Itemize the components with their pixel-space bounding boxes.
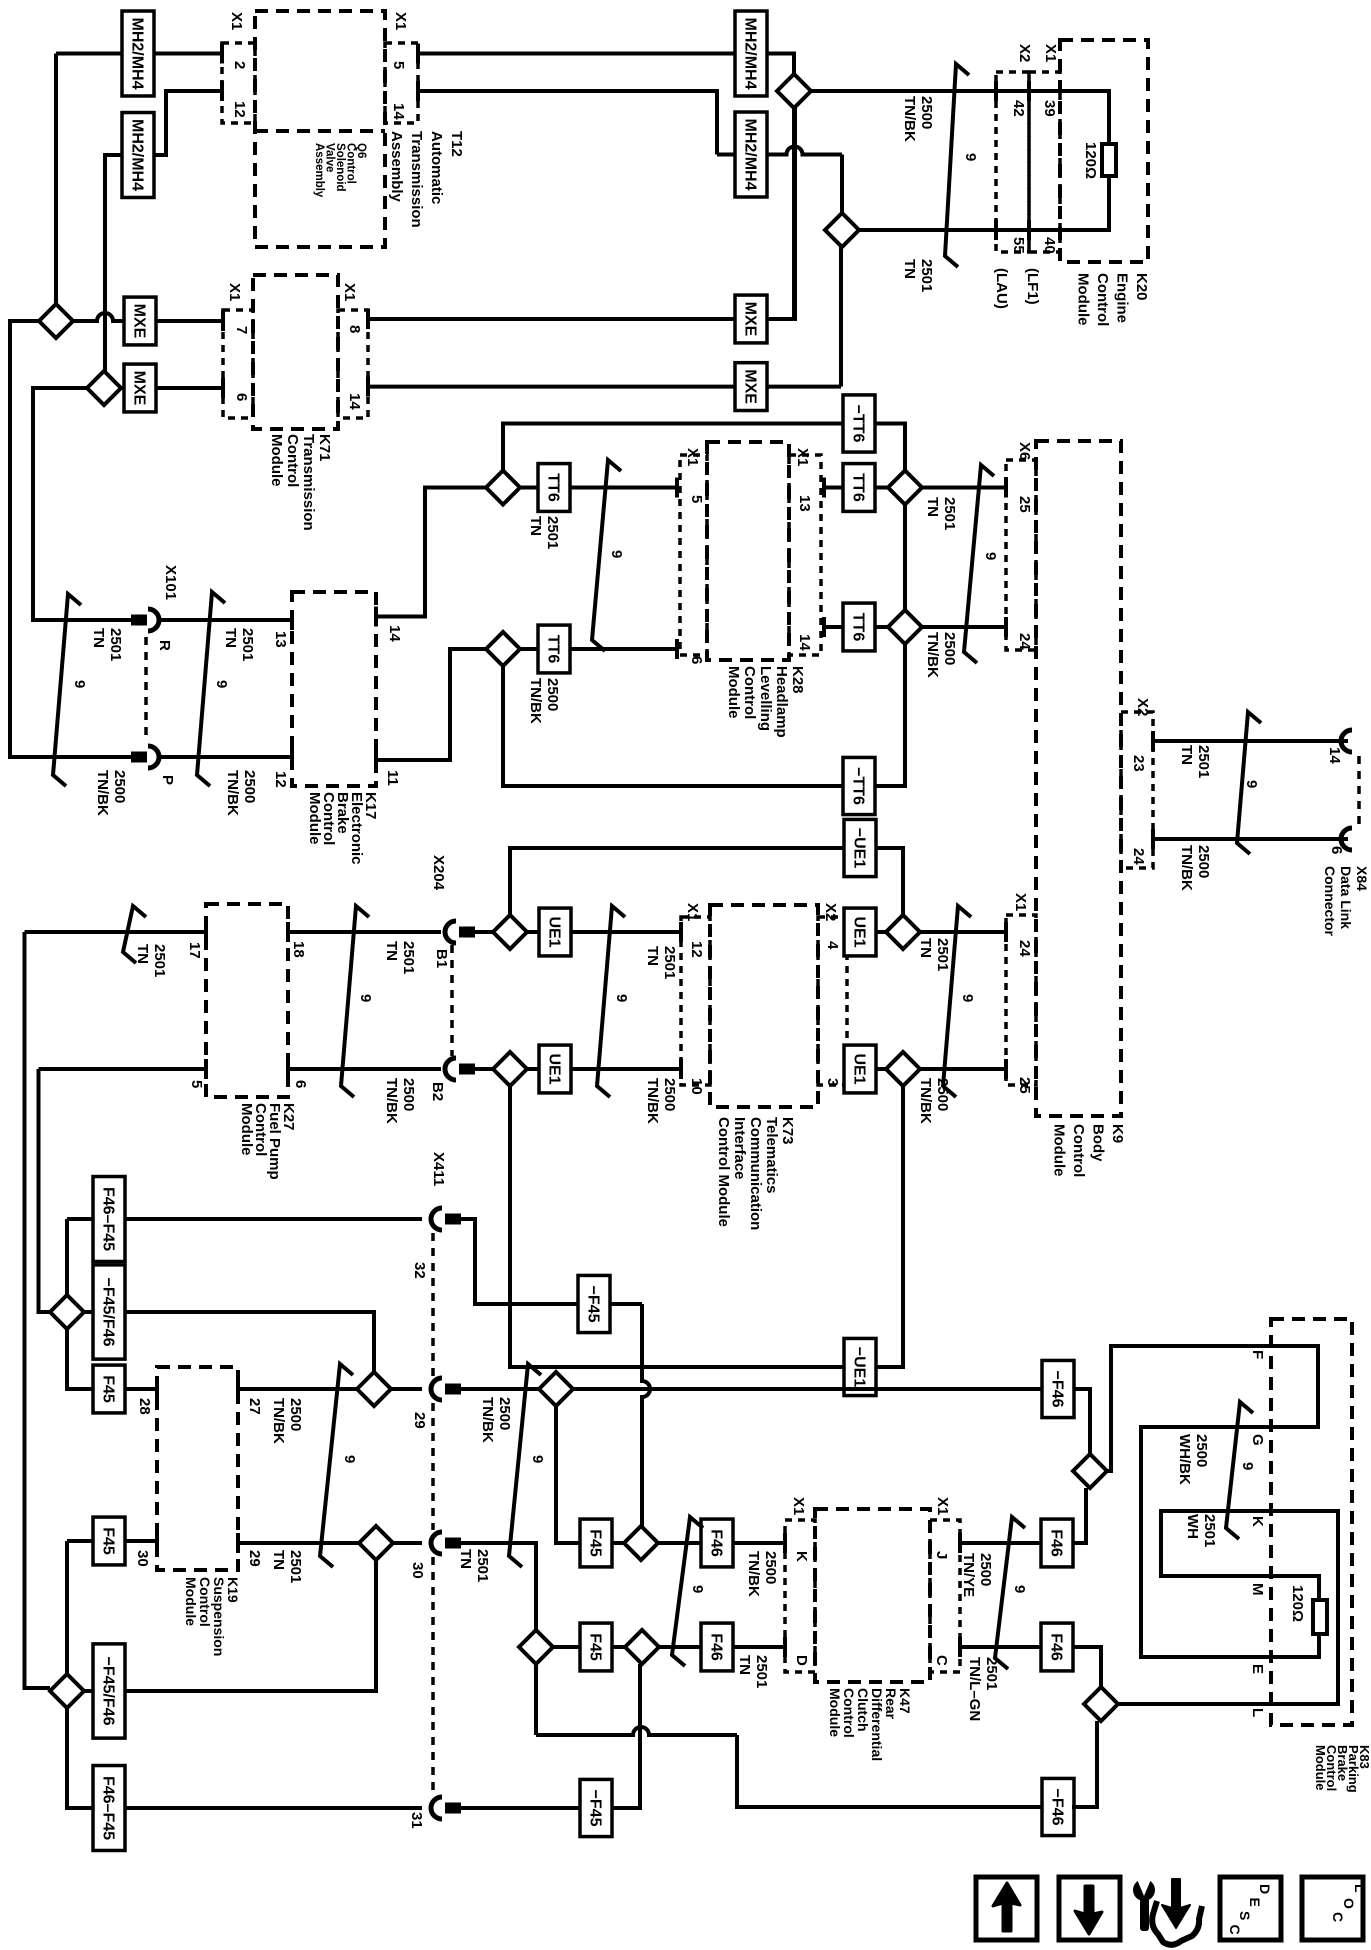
svg-text:S: S: [1237, 1911, 1253, 1920]
twisted pair marker (K20): [945, 64, 969, 267]
wire D9 top to -UE1: [510, 848, 845, 915]
tick K47 pin D: [783, 1637, 787, 1657]
svg-text:X2: X2: [822, 903, 839, 921]
svg-text:F: F: [1249, 1350, 1266, 1359]
wire down to -F46 (2): [737, 1735, 1043, 1807]
svg-text:R: R: [156, 640, 173, 651]
wire D7 to K28 pin6: [520, 647, 677, 651]
svg-text:18: 18: [290, 941, 307, 958]
svg-text:L: L: [1352, 1884, 1368, 1893]
wire X411-31 to -F45 (2): [461, 1806, 580, 1810]
twisted pair marker (K9 X6): [964, 465, 994, 663]
icon box down arrow: [1059, 1877, 1120, 1940]
svg-text:5: 5: [188, 1080, 205, 1088]
svg-text:24: 24: [1016, 633, 1033, 650]
wire F46 down to D21 top: [1072, 1647, 1101, 1687]
svg-text:−UE1: −UE1: [851, 828, 868, 869]
connector X411 body (dashed, 29-30): [431, 1403, 435, 1530]
wire label box UE1 (left 1): [539, 908, 571, 956]
tick K73 pin12: [679, 922, 683, 942]
wire X411-32 to -F45: [461, 1219, 578, 1304]
twisted pair marker (row1 left): [123, 906, 146, 963]
wire D20 to K83 F-G jumper to E and resistor: [1107, 1346, 1319, 1657]
svg-text:9: 9: [529, 1455, 546, 1463]
svg-text:F45: F45: [100, 1527, 117, 1555]
svg-text:−F45: −F45: [587, 1790, 604, 1827]
svg-text:4: 4: [824, 941, 841, 950]
svg-text:X1: X1: [341, 283, 358, 301]
svg-text:9: 9: [608, 550, 625, 558]
splice diamond D1: [777, 74, 811, 108]
svg-text:C: C: [1227, 1925, 1243, 1935]
wire F46 to K47 pin D: [732, 1645, 785, 1649]
svg-text:9: 9: [962, 153, 979, 161]
resistor 120 ohm (K83): [1313, 1600, 1327, 1634]
tick K9 X2-23: [1151, 731, 1155, 751]
svg-text:F46: F46: [1048, 1529, 1065, 1557]
svg-text:30: 30: [134, 1550, 151, 1567]
svg-text:UE1: UE1: [851, 916, 868, 947]
svg-text:D: D: [1257, 1884, 1273, 1894]
wire -F45 (2) up to D20b bottom: [612, 1664, 640, 1808]
splice diamond D9: [493, 915, 527, 949]
svg-text:55: 55: [1010, 237, 1027, 254]
svg-text:F46–F45: F46–F45: [100, 1187, 117, 1251]
splice diamond D18: [624, 1526, 658, 1560]
wire D17 to X411-30: [393, 1541, 422, 1545]
twisted pair marker (X101 left): [53, 594, 81, 786]
svg-text:(LAU): (LAU): [993, 268, 1010, 309]
wire K27 pin18 to X204 B1: [288, 930, 441, 934]
wire -UE1 to D10 top: [875, 848, 903, 915]
splice diamond D4: [87, 371, 121, 405]
tick K19 pin30: [155, 1531, 159, 1551]
tick K19 pin27: [236, 1379, 240, 1399]
wire K73 pin4 to D10: [847, 930, 886, 934]
tick K20 X2-42: [994, 81, 998, 101]
svg-text:UE1: UE1: [546, 916, 563, 947]
wire -F46 to D20 top: [1073, 1389, 1090, 1454]
svg-text:−F45: −F45: [585, 1286, 602, 1323]
wire D6 top to -TT6: [503, 424, 844, 471]
connector X411 pin 32: [431, 1208, 442, 1230]
twisted pair marker (X84): [1237, 712, 1261, 854]
wire D4 left down to X101 R: [33, 388, 131, 620]
twisted pair marker (K73 left): [597, 906, 625, 1097]
svg-text:12: 12: [272, 771, 289, 788]
tick T12 pin14: [416, 81, 420, 101]
svg-text:K: K: [793, 1551, 810, 1562]
wire label box UE1 (right 2): [844, 1045, 876, 1093]
tick K28 pin6: [675, 639, 679, 659]
wire D15 right to -F45/F46: [84, 1310, 93, 1314]
tick K47 pin C: [958, 1637, 962, 1657]
tick T12 pin12: [220, 81, 224, 101]
tick T12 pin5: [416, 44, 420, 64]
svg-text:9: 9: [959, 994, 976, 1002]
svg-text:F45: F45: [100, 1375, 117, 1403]
tick K9 X1-25: [1004, 1059, 1008, 1079]
wire D15 bottom to F45 row (K19-28): [67, 1329, 93, 1389]
module K9 Body Control Module (dashed box): [1036, 441, 1121, 1116]
connector strip K28 X1 left: [680, 455, 707, 655]
wire -F45/F46 to D13 top: [125, 1312, 374, 1372]
wire D18 to F46 (row C): [658, 1541, 702, 1545]
tick K19 pin29: [236, 1533, 240, 1553]
wire label box -F45 (top): [578, 1275, 610, 1332]
svg-text:13: 13: [796, 495, 813, 512]
wire label box MH2/MH4 (B): [122, 113, 154, 198]
wire label box F46-F45 (bottom): [93, 1766, 125, 1851]
svg-text:F46–F45: F46–F45: [100, 1776, 117, 1840]
svg-text:9: 9: [357, 994, 374, 1002]
module K19 Suspension Control Module (dashed box): [157, 1367, 238, 1570]
wire label box F46 (row C): [701, 1519, 733, 1567]
wire -TT6 to splice D5 top: [874, 424, 905, 471]
wire label box -F45 (bottom): [580, 1779, 612, 1836]
tick K73 pin4: [845, 922, 849, 942]
tick K17 pin13: [290, 610, 294, 630]
wire D19b to F45 (row D): [553, 1645, 581, 1649]
svg-text:6: 6: [292, 1080, 309, 1088]
svg-text:14: 14: [346, 393, 363, 410]
wire D8 to K9 X6-24: [922, 625, 1006, 629]
wire label box MH2/MH4 (A): [122, 11, 154, 96]
wire row A corner down to D15: [65, 1219, 69, 1295]
svg-text:120Ω: 120Ω: [1082, 142, 1099, 179]
connector X411 pin 29: [431, 1378, 442, 1400]
tick K20 X2-55: [994, 220, 998, 240]
connector X411 pin 31: [431, 1797, 442, 1819]
svg-text:−F45/F46: −F45/F46: [100, 1278, 117, 1347]
svg-text:32: 32: [411, 1262, 428, 1279]
svg-text:P: P: [159, 775, 176, 785]
connector strip K47 X1 right: [930, 1520, 960, 1672]
svg-text:X1: X1: [684, 448, 701, 466]
wire label box -TT6 (bottom): [843, 757, 875, 814]
svg-text:MH2/MH4: MH2/MH4: [129, 119, 146, 191]
wire label box F46-F45 (top): [93, 1177, 125, 1262]
svg-text:G: G: [1249, 1434, 1266, 1446]
svg-text:L: L: [1249, 1708, 1266, 1717]
tick K20 X1-40: [1027, 220, 1031, 240]
wire 2501 TN D2 to K20: [859, 228, 996, 232]
wire label box UE1 (right 1): [844, 908, 876, 956]
svg-text:9: 9: [1243, 780, 1260, 788]
tick K73 pin3: [845, 1059, 849, 1079]
tick K9 X1-24: [1004, 922, 1008, 942]
splice diamond D13: [357, 1372, 391, 1406]
wire label box -UE1 (top): [844, 819, 876, 876]
svg-text:F46: F46: [708, 1633, 725, 1661]
wire K20 pin40 to resistor bottom: [996, 176, 1109, 230]
connector strip K9 X6: [1006, 460, 1036, 650]
module K47 Rear Differential Clutch Control Module (dashed box): [815, 1509, 930, 1682]
svg-text:MXE: MXE: [131, 304, 148, 339]
connector X101 body (dashed): [144, 637, 148, 742]
wire D13 to X411-29: [391, 1387, 422, 1391]
wire label box MH2/MH4 (C): [735, 11, 767, 96]
tick K28 pin13: [822, 478, 826, 498]
wire label box F45 (K19-28): [93, 1365, 125, 1413]
wire label box F45 (K19-30): [93, 1517, 125, 1565]
wire label box F46 (row D): [701, 1623, 733, 1671]
splice diamond D19b: [519, 1630, 553, 1664]
wire D14 bottom to F45 row C: [556, 1406, 581, 1543]
svg-text:9: 9: [689, 1585, 706, 1593]
svg-text:B1: B1: [433, 949, 450, 968]
svg-text:K: K: [1249, 1516, 1266, 1527]
svg-text:−F45/F46: −F45/F46: [100, 1657, 117, 1726]
module T12 Automatic Transmission Assembly (dashed box): [255, 11, 385, 247]
resistor 120 ohm (K20): [1102, 144, 1116, 176]
tick K28 pin5: [675, 478, 679, 498]
wire label box F46 (J): [1041, 1519, 1073, 1567]
svg-text:9: 9: [613, 994, 630, 1002]
wire label box -F45/F46 (bottom): [93, 1644, 125, 1738]
svg-text:TT6: TT6: [850, 473, 867, 502]
wire D9 to K73 pin12: [527, 930, 681, 934]
svg-text:−TT6: −TT6: [850, 405, 867, 443]
tick K47 pin K: [783, 1533, 787, 1553]
svg-text:B2: B2: [429, 1082, 446, 1101]
svg-text:24: 24: [1016, 940, 1033, 957]
wire F46 to K47 pin K: [732, 1541, 785, 1545]
svg-text:F45: F45: [587, 1529, 604, 1557]
wire 2500 bus to T12 pin2: [56, 52, 222, 56]
wire K83 resistor to M-K jumper to L and D21: [1118, 1511, 1338, 1704]
connector strip K47 X1 left: [785, 1520, 815, 1672]
svg-text:7: 7: [233, 326, 250, 334]
wire to -F46 bottom row (hop over D20b leg): [536, 1727, 737, 1735]
twisted pair marker (K19 right): [320, 1364, 353, 1567]
wire X101 R to K17 pin13: [160, 618, 292, 622]
svg-text:14: 14: [386, 625, 403, 642]
svg-text:3: 3: [824, 1078, 841, 1086]
wire row2 left to K27 pin5: [39, 1067, 207, 1071]
connector strip K9 X2: [1121, 712, 1153, 868]
svg-text:MH2/MH4: MH2/MH4: [129, 17, 146, 89]
svg-text:−F46: −F46: [1049, 1371, 1066, 1408]
svg-text:MH2/MH4: MH2/MH4: [742, 17, 759, 89]
svg-text:X1: X1: [794, 448, 811, 466]
wire D19b bottom to -F46 row (hop): [534, 1664, 538, 1735]
wire F46 up to D20 bottom: [1072, 1488, 1086, 1543]
svg-text:29: 29: [411, 1412, 428, 1429]
wire X101 P to K17 pin12: [160, 755, 292, 759]
wire D10 to K9 X1-24: [920, 930, 1006, 934]
svg-text:9: 9: [982, 552, 999, 560]
wire X411-30 down to D19b top: [461, 1543, 536, 1630]
wire label box F45 (row D): [580, 1623, 612, 1671]
splice diamond D20: [1073, 1454, 1107, 1488]
wire to splice D2 (hop): [717, 147, 842, 155]
wire D6 to K28 pin5: [520, 486, 677, 490]
connector X84 pin 14: [1341, 730, 1352, 752]
twisted pair marker (row C/D): [672, 1517, 703, 1666]
wire F45 to D18: [612, 1541, 624, 1545]
wire K19 pin29 to D17: [238, 1541, 359, 1545]
connector X101 pin P: [131, 752, 147, 763]
svg-text:M: M: [1249, 1583, 1266, 1596]
tick K47 pin J: [958, 1533, 962, 1553]
wire label box MH2/MH4 (D): [735, 112, 767, 197]
wire label box TT6 (right 2): [843, 603, 875, 651]
module K17 Electronic Brake Control Module (dashed box): [292, 592, 376, 786]
wire label box TT6 (left 2): [538, 625, 570, 673]
tick K19 pin28: [155, 1379, 159, 1399]
svg-text:14: 14: [390, 103, 407, 120]
wire -UE1 (2) to D12 bottom: [875, 1086, 903, 1367]
svg-text:−F46: −F46: [1049, 1789, 1066, 1826]
wire -TT6 (2) to splice D8 bottom: [874, 644, 905, 786]
wire T12 pin5 to splice D1: [418, 54, 794, 75]
svg-text:9: 9: [71, 680, 88, 688]
wire K71 pin14 to D2 via MXE: [368, 385, 841, 389]
svg-text:30: 30: [409, 1562, 426, 1579]
module K73 Telematics Communication Interface Control Module (dashed box): [710, 905, 818, 1107]
splice diamond D16: [50, 1674, 84, 1708]
splice diamond D3: [39, 304, 73, 338]
svg-text:9: 9: [1239, 1462, 1256, 1470]
tick K27 pin5: [204, 1059, 208, 1079]
connector X101 pin R: [131, 615, 147, 626]
svg-text:5: 5: [688, 495, 705, 503]
wire D16 bottom to F46-F45 row (X411-31): [67, 1708, 93, 1808]
splice diamond D7: [486, 632, 520, 666]
svg-text:−UE1: −UE1: [851, 1347, 868, 1388]
wire label box -F45/F46 (top): [93, 1265, 125, 1359]
svg-text:UE1: UE1: [546, 1053, 563, 1084]
svg-text:X1: X1: [934, 1497, 951, 1515]
svg-text:MXE: MXE: [742, 302, 759, 337]
twisted pair marker (X101 right): [197, 592, 225, 786]
wire 2500 TN/BK K9 to X84: [1153, 837, 1348, 841]
svg-text:2: 2: [231, 61, 248, 69]
wire label box MXE (1): [124, 297, 156, 345]
svg-text:MXE: MXE: [131, 371, 148, 406]
tick K9 X2-24: [1151, 829, 1155, 849]
tick K27 pin17: [204, 922, 208, 942]
svg-text:24: 24: [1130, 848, 1147, 865]
tick K9 X6-25: [1004, 478, 1008, 498]
wire row2 left vertical V2: [39, 1069, 51, 1312]
connector X204 pin B1: [445, 921, 456, 943]
wire label box MXE (2): [124, 364, 156, 412]
wire 2501 TN K9 to X84: [1153, 739, 1348, 743]
icon box LOC: [1302, 1877, 1363, 1940]
svg-text:J: J: [933, 1551, 950, 1559]
svg-text:25: 25: [1016, 1077, 1033, 1094]
wire label box F45 (row C): [580, 1519, 612, 1567]
twisted pair marker (K9 X1): [943, 906, 971, 1097]
wire F45 to D20b: [612, 1645, 625, 1649]
wire X411-29 to D14: [461, 1387, 539, 1391]
tick K20 X1-39: [1027, 81, 1031, 101]
svg-text:X2: X2: [1016, 44, 1033, 62]
tick K27 pin18: [286, 922, 290, 942]
tick K71 pin8: [366, 309, 370, 329]
svg-text:6: 6: [688, 656, 705, 664]
wire label box MXE (D): [735, 363, 767, 411]
svg-text:10: 10: [688, 1078, 705, 1095]
connector X84 body (dashed): [1357, 756, 1361, 824]
connector strip K20 X2: [996, 72, 1029, 252]
wire -F46 (2) to D21 bottom: [1072, 1721, 1097, 1807]
wire row A (F46-F45 to X411-32): [67, 1217, 422, 1221]
svg-text:13: 13: [272, 631, 289, 648]
svg-text:6: 6: [1328, 846, 1345, 854]
svg-text:42: 42: [1010, 100, 1027, 117]
wire K17 pin14 to splice D6: [376, 488, 487, 617]
svg-text:11: 11: [384, 770, 401, 786]
connector X84 pin 6: [1341, 828, 1352, 850]
wire label box UE1 (left 2): [539, 1045, 571, 1093]
wire D2 down to MXE row: [839, 244, 843, 387]
module K83 Parking Brake Control Module (dashed box): [1271, 1319, 1352, 1725]
icon box up arrow: [976, 1877, 1037, 1940]
splice diamond D20b: [625, 1630, 659, 1664]
connector strip K71 X1 right: [338, 310, 368, 418]
tick T12 pin2: [220, 44, 224, 64]
wire K47 pin J to F46: [960, 1541, 1042, 1545]
svg-text:40: 40: [1041, 237, 1058, 254]
wire label box -TT6 (top): [843, 395, 875, 452]
svg-text:TT6: TT6: [850, 613, 867, 642]
connector strip K28 X1 right: [789, 455, 821, 655]
icon wrench with arrow: [1133, 1879, 1155, 1901]
wire D20b to F46 (row D): [659, 1645, 702, 1649]
svg-text:F46: F46: [1048, 1633, 1065, 1661]
twisted pair marker (K47 right): [995, 1517, 1025, 1669]
twisted pair marker (K27 right): [341, 906, 369, 1097]
module K27 Fuel Pump Control Module (dashed box): [206, 904, 288, 1097]
connector strip T12 X1 right: [385, 43, 418, 123]
splice diamond D5: [888, 471, 922, 505]
wire T12 pin14 right: [418, 91, 717, 155]
wire row1 left vertical V1: [25, 932, 51, 1688]
tick K9 X6-24: [1004, 617, 1008, 637]
wire K73 pin3 to D12: [847, 1067, 886, 1071]
svg-text:E: E: [1247, 1898, 1263, 1907]
wire F45 row corner down to D16 top: [65, 1541, 69, 1674]
wire D3 to K71 pin7 (hop): [73, 313, 223, 321]
tick K17 pin11: [374, 750, 378, 770]
twisted pair marker (X411 right): [509, 1364, 541, 1567]
twisted pair marker (K83): [1226, 1402, 1253, 1539]
splice diamond D11: [493, 1052, 527, 1086]
svg-text:23: 23: [1130, 755, 1147, 772]
svg-text:39: 39: [1041, 100, 1058, 117]
connector strip K20 X1: [1029, 72, 1060, 252]
svg-text:UE1: UE1: [851, 1053, 868, 1084]
tick K17 pin12: [290, 747, 294, 767]
svg-text:9: 9: [213, 680, 230, 688]
tick K17 pin14: [374, 607, 378, 627]
wire F45 box to K19 pin28: [125, 1387, 157, 1391]
wire X204 B1 to D9: [475, 930, 493, 934]
wire label box -UE1 (bottom): [844, 1338, 876, 1395]
wire label box TT6 (right 1): [843, 464, 875, 512]
svg-text:31: 31: [408, 1812, 425, 1829]
splice diamond D17: [359, 1526, 393, 1560]
svg-text:14: 14: [796, 634, 813, 651]
wire D7 bottom to -TT6 (2): [503, 666, 844, 786]
svg-text:6: 6: [233, 393, 250, 401]
wire D5 to K9 X6-25: [922, 486, 1006, 490]
wire D4 to K71 pin6: [121, 386, 223, 390]
wire D12 to K9 X1-25: [920, 1067, 1006, 1071]
